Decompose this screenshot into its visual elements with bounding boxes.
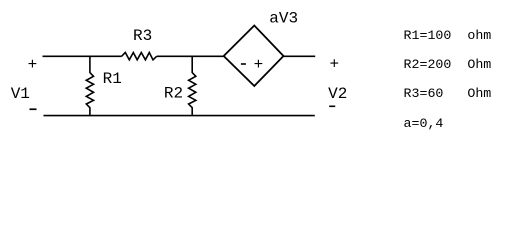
svg-text:R2: R2 <box>164 85 183 103</box>
svg-text:+: + <box>329 55 339 73</box>
wire bottom rail <box>44 115 315 117</box>
resistor R1 (vertical) <box>86 56 93 115</box>
svg-text:V2: V2 <box>328 85 347 103</box>
resistor R3 (zigzag in top wire) <box>122 53 157 60</box>
svg-text:+: + <box>254 56 264 74</box>
svg-text:aV3: aV3 <box>269 10 298 28</box>
svg-text:R2=200 Ohm: R2=200 Ohm <box>404 57 492 72</box>
wire top-middle segment <box>157 55 224 57</box>
source minus sign <box>241 63 246 65</box>
svg-text:R3: R3 <box>133 27 152 45</box>
port V1 minus sign <box>30 108 37 110</box>
resistor R2 (vertical) <box>189 56 196 115</box>
svg-text:R1=100 ohm: R1=100 ohm <box>404 28 492 43</box>
svg-text:V1: V1 <box>11 85 30 103</box>
wire top-left segment <box>43 55 122 57</box>
dependent source aV3 (diamond) <box>224 26 284 87</box>
svg-text:R1: R1 <box>103 70 122 88</box>
svg-text:a=0,4: a=0,4 <box>404 116 444 131</box>
wire top-right segment <box>284 55 316 57</box>
port V2 minus sign <box>329 106 335 108</box>
svg-text:+: + <box>28 56 38 74</box>
svg-text:R3=60 Ohm: R3=60 Ohm <box>404 86 492 101</box>
